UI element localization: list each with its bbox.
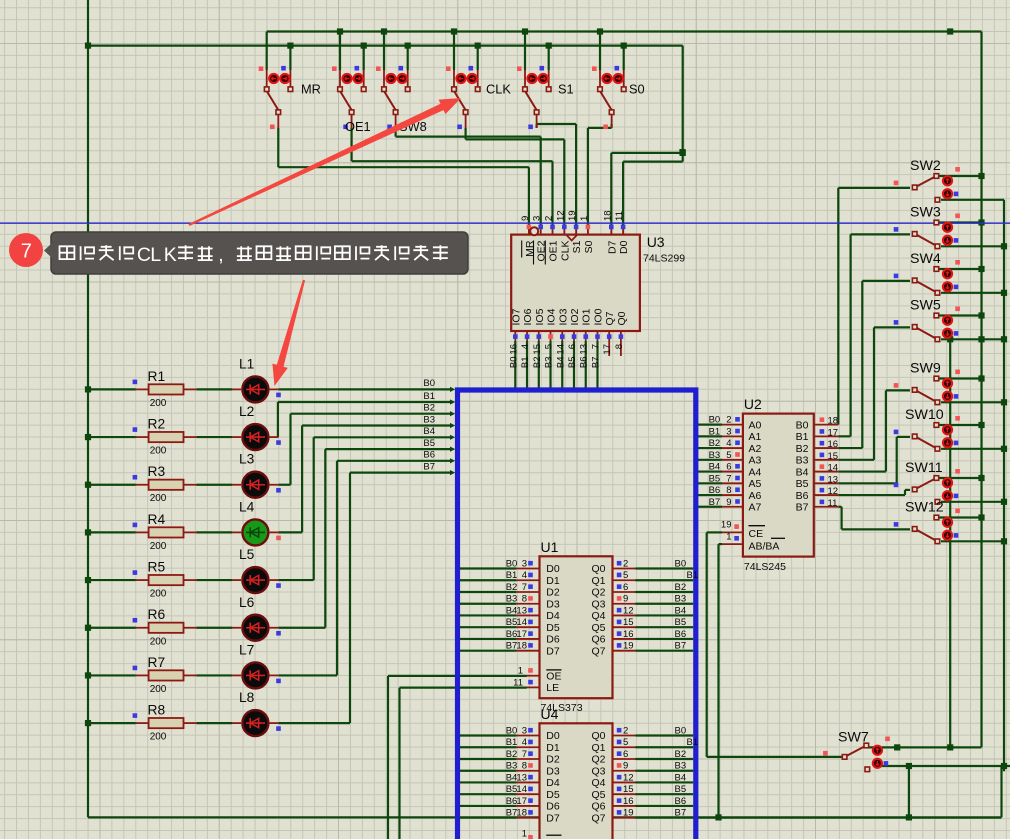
svg-text:D1: D1 <box>546 575 560 587</box>
svg-text:OE: OE <box>546 670 561 682</box>
svg-text:D6: D6 <box>546 634 560 646</box>
svg-text:7: 7 <box>590 344 601 349</box>
svg-text:B3: B3 <box>506 761 518 772</box>
svg-text:6: 6 <box>726 462 731 473</box>
svg-text:U3: U3 <box>647 234 665 250</box>
svg-text:8: 8 <box>726 485 731 496</box>
svg-text:D3: D3 <box>546 765 560 777</box>
svg-text:,: , <box>218 244 223 266</box>
svg-text:D7: D7 <box>546 645 560 657</box>
svg-text:B1: B1 <box>687 570 699 581</box>
svg-text:L8: L8 <box>239 690 255 705</box>
svg-text:B5: B5 <box>506 784 518 795</box>
svg-text:19: 19 <box>623 808 634 819</box>
svg-text:9: 9 <box>623 761 628 772</box>
svg-text:B6: B6 <box>506 629 518 640</box>
svg-text:B3: B3 <box>675 594 687 605</box>
svg-text:17: 17 <box>828 427 839 438</box>
svg-text:A1: A1 <box>749 431 762 443</box>
svg-text:B0: B0 <box>796 419 809 431</box>
svg-text:R1: R1 <box>148 369 166 384</box>
svg-text:D2: D2 <box>546 587 560 599</box>
svg-text:D4: D4 <box>546 610 560 622</box>
svg-text:B2: B2 <box>506 749 518 760</box>
svg-text:14: 14 <box>555 344 566 355</box>
svg-text:B5: B5 <box>506 617 518 628</box>
svg-text:7: 7 <box>21 241 32 263</box>
svg-text:IO7: IO7 <box>510 308 522 325</box>
svg-text:B7: B7 <box>675 808 687 819</box>
svg-text:SW10: SW10 <box>905 407 944 423</box>
svg-text:B2: B2 <box>423 403 435 414</box>
svg-text:11: 11 <box>513 677 523 688</box>
svg-text:1: 1 <box>518 666 523 677</box>
svg-text:B6: B6 <box>506 796 518 807</box>
svg-text:B1: B1 <box>709 426 721 437</box>
svg-text:SW9: SW9 <box>910 361 941 377</box>
svg-text:18: 18 <box>516 808 527 819</box>
svg-text:L3: L3 <box>239 452 255 467</box>
svg-text:L1: L1 <box>239 356 254 371</box>
svg-text:A2: A2 <box>749 443 762 455</box>
svg-text:L2: L2 <box>239 404 254 419</box>
svg-text:12: 12 <box>555 210 566 221</box>
svg-text:A3: A3 <box>749 455 762 467</box>
svg-text:IO3: IO3 <box>557 308 569 325</box>
svg-text:200: 200 <box>150 684 167 695</box>
svg-text:6: 6 <box>623 749 628 760</box>
svg-text:IO4: IO4 <box>546 308 558 325</box>
svg-text:B4: B4 <box>675 605 687 616</box>
svg-text:R7: R7 <box>148 655 166 670</box>
svg-text:B4: B4 <box>555 357 566 369</box>
svg-text:B3: B3 <box>675 761 687 772</box>
svg-text:Q2: Q2 <box>591 587 605 599</box>
svg-text:B6: B6 <box>709 485 721 496</box>
svg-text:14: 14 <box>828 463 839 474</box>
svg-text:Q7: Q7 <box>591 645 605 657</box>
svg-text:B3: B3 <box>796 455 809 467</box>
svg-text:12: 12 <box>623 772 634 783</box>
svg-text:14: 14 <box>516 784 527 795</box>
svg-text:B7: B7 <box>506 641 518 652</box>
svg-text:14: 14 <box>516 617 527 628</box>
svg-text:4: 4 <box>522 570 527 581</box>
svg-text:A4: A4 <box>749 466 762 478</box>
svg-text:B3: B3 <box>544 357 555 369</box>
svg-text:Q3: Q3 <box>591 765 605 777</box>
svg-text:B3: B3 <box>423 414 435 425</box>
svg-text:B0: B0 <box>506 726 518 737</box>
svg-text:16: 16 <box>508 344 519 355</box>
svg-text:B5: B5 <box>675 617 687 628</box>
svg-text:OE1: OE1 <box>548 240 560 261</box>
svg-text:5: 5 <box>623 570 628 581</box>
svg-text:IO6: IO6 <box>522 308 534 325</box>
svg-text:AB/BA: AB/BA <box>749 541 780 553</box>
svg-text:4: 4 <box>726 438 731 449</box>
svg-text:SW7: SW7 <box>838 730 869 746</box>
svg-text:Q4: Q4 <box>591 777 605 789</box>
svg-text:Q6: Q6 <box>591 801 605 813</box>
svg-text:3: 3 <box>532 216 543 221</box>
svg-text:U2: U2 <box>744 396 762 412</box>
svg-text:9: 9 <box>726 497 731 508</box>
svg-text:2: 2 <box>623 559 628 570</box>
svg-text:B0: B0 <box>506 559 518 570</box>
svg-text:13: 13 <box>516 772 527 783</box>
svg-text:B1: B1 <box>506 570 518 581</box>
svg-text:R6: R6 <box>148 607 166 622</box>
svg-text:74LS299: 74LS299 <box>643 253 685 265</box>
svg-text:A5: A5 <box>749 478 762 490</box>
svg-text:B5: B5 <box>567 357 578 369</box>
svg-text:C: C <box>137 244 151 266</box>
svg-text:B7: B7 <box>423 461 435 472</box>
svg-text:B1: B1 <box>423 391 435 402</box>
svg-text:Q5: Q5 <box>591 789 605 801</box>
svg-text:R8: R8 <box>148 702 166 717</box>
svg-text:B2: B2 <box>506 582 518 593</box>
svg-text:B4: B4 <box>675 772 687 783</box>
svg-text:B6: B6 <box>423 450 435 461</box>
svg-text:B6: B6 <box>579 357 590 369</box>
svg-text:A7: A7 <box>749 502 762 514</box>
svg-text:IO0: IO0 <box>592 308 604 325</box>
svg-text:CE: CE <box>749 528 764 540</box>
svg-text:IO2: IO2 <box>569 308 581 325</box>
svg-text:SW2: SW2 <box>910 158 941 174</box>
svg-text:11: 11 <box>614 211 625 221</box>
svg-text:16: 16 <box>828 439 839 450</box>
svg-text:B5: B5 <box>675 784 687 795</box>
svg-text:200: 200 <box>150 493 167 504</box>
svg-text:B1: B1 <box>520 357 531 369</box>
svg-text:B4: B4 <box>506 772 518 783</box>
svg-text:B7: B7 <box>590 357 601 369</box>
svg-text:B7: B7 <box>709 497 721 508</box>
svg-text:7: 7 <box>522 749 527 760</box>
svg-text:Q7: Q7 <box>591 812 605 824</box>
svg-text:A6: A6 <box>749 490 762 502</box>
svg-text:L6: L6 <box>239 595 255 610</box>
svg-text:R2: R2 <box>148 416 166 431</box>
svg-text:B5: B5 <box>796 478 809 490</box>
svg-text:U4: U4 <box>541 706 559 722</box>
svg-text:19: 19 <box>623 641 634 652</box>
svg-text:IO5: IO5 <box>534 308 546 325</box>
svg-text:D0: D0 <box>546 563 560 575</box>
svg-text:13: 13 <box>516 605 527 616</box>
svg-text:200: 200 <box>150 589 167 600</box>
svg-text:L7: L7 <box>239 642 254 657</box>
svg-text:Q3: Q3 <box>591 598 605 610</box>
svg-text:R5: R5 <box>148 559 166 574</box>
svg-text:Q0: Q0 <box>616 311 628 325</box>
svg-text:B5: B5 <box>423 438 435 449</box>
svg-text:B3: B3 <box>506 594 518 605</box>
svg-text:A0: A0 <box>749 419 762 431</box>
svg-text:17: 17 <box>602 344 613 355</box>
svg-text:D0: D0 <box>618 240 630 254</box>
svg-text:5: 5 <box>544 344 555 349</box>
svg-text:R4: R4 <box>148 512 166 527</box>
svg-text:Q6: Q6 <box>591 634 605 646</box>
svg-text:7: 7 <box>726 473 731 484</box>
svg-text:200: 200 <box>150 636 167 647</box>
svg-text:D5: D5 <box>546 622 560 634</box>
svg-text:L: L <box>150 244 161 266</box>
svg-text:9: 9 <box>520 216 531 221</box>
svg-text:19: 19 <box>567 210 578 221</box>
svg-text:OE2: OE2 <box>536 240 548 261</box>
svg-text:U1: U1 <box>541 539 559 555</box>
svg-text:19: 19 <box>721 520 732 531</box>
svg-text:MR: MR <box>524 240 536 257</box>
svg-text:B0: B0 <box>423 378 435 389</box>
svg-text:200: 200 <box>150 398 167 409</box>
svg-text:2: 2 <box>623 726 628 737</box>
svg-text:4: 4 <box>522 737 527 748</box>
svg-text:4: 4 <box>520 344 531 349</box>
svg-text:B2: B2 <box>709 438 721 449</box>
svg-text:B4: B4 <box>423 426 435 437</box>
svg-text:B2: B2 <box>675 582 687 593</box>
svg-text:D2: D2 <box>546 754 560 766</box>
svg-text:B1: B1 <box>506 737 518 748</box>
svg-text:1: 1 <box>579 216 590 221</box>
svg-text:S0: S0 <box>583 240 595 253</box>
svg-text:15: 15 <box>828 451 839 462</box>
svg-text:S0: S0 <box>629 82 645 97</box>
svg-text:B2: B2 <box>532 357 543 369</box>
svg-text:OE1: OE1 <box>345 119 371 134</box>
svg-text:B0: B0 <box>709 415 721 426</box>
svg-text:D6: D6 <box>546 801 560 813</box>
svg-text:S1: S1 <box>571 240 583 253</box>
svg-text:B1: B1 <box>796 431 809 443</box>
svg-text:B2: B2 <box>796 443 809 455</box>
svg-text:L5: L5 <box>239 547 255 562</box>
svg-text:12: 12 <box>828 486 839 497</box>
svg-text:D3: D3 <box>546 598 560 610</box>
svg-text:8: 8 <box>522 594 527 605</box>
svg-text:13: 13 <box>828 474 839 485</box>
svg-text:13: 13 <box>579 344 590 355</box>
svg-text:17: 17 <box>516 629 527 640</box>
svg-text:B4: B4 <box>506 605 518 616</box>
svg-text:15: 15 <box>623 784 634 795</box>
svg-text:D7: D7 <box>546 812 560 824</box>
svg-text:D0: D0 <box>546 730 560 742</box>
svg-text:B7: B7 <box>796 502 809 514</box>
svg-text:B6: B6 <box>675 629 687 640</box>
svg-text:IO1: IO1 <box>581 308 593 325</box>
svg-text:SW4: SW4 <box>910 251 941 267</box>
svg-text:18: 18 <box>602 210 613 221</box>
svg-text:15: 15 <box>623 617 634 628</box>
svg-text:6: 6 <box>623 582 628 593</box>
svg-text:7: 7 <box>522 582 527 593</box>
svg-text:B4: B4 <box>796 466 809 478</box>
svg-text:D5: D5 <box>546 789 560 801</box>
svg-text:15: 15 <box>532 344 543 355</box>
svg-text:B7: B7 <box>506 808 518 819</box>
svg-text:3: 3 <box>522 559 527 570</box>
svg-text:11: 11 <box>828 498 838 509</box>
svg-text:SW12: SW12 <box>905 500 944 516</box>
svg-text:B1: B1 <box>687 737 699 748</box>
svg-text:CLK: CLK <box>486 82 511 97</box>
svg-text:Q1: Q1 <box>591 742 605 754</box>
svg-text:2: 2 <box>726 415 731 426</box>
svg-text:SW11: SW11 <box>905 460 943 476</box>
svg-text:200: 200 <box>150 446 167 457</box>
svg-text:B4: B4 <box>709 462 721 473</box>
svg-text:16: 16 <box>623 629 634 640</box>
svg-text:B3: B3 <box>709 450 721 461</box>
svg-text:1: 1 <box>522 829 527 839</box>
svg-text:B2: B2 <box>675 749 687 760</box>
svg-text:D7: D7 <box>606 240 618 254</box>
svg-text:B0: B0 <box>675 559 687 570</box>
svg-text:17: 17 <box>516 796 527 807</box>
svg-text:2: 2 <box>544 216 555 221</box>
svg-text:3: 3 <box>522 726 527 737</box>
svg-text:B7: B7 <box>675 641 687 652</box>
svg-text:L4: L4 <box>239 499 255 514</box>
svg-text:74LS245: 74LS245 <box>744 561 786 573</box>
svg-text:B6: B6 <box>675 796 687 807</box>
svg-text:18: 18 <box>516 641 527 652</box>
svg-text:200: 200 <box>150 541 167 552</box>
svg-text:5: 5 <box>726 450 731 461</box>
svg-text:SW3: SW3 <box>910 205 941 221</box>
svg-text:B6: B6 <box>796 490 809 502</box>
svg-text:3: 3 <box>726 426 731 437</box>
svg-text:16: 16 <box>623 796 634 807</box>
svg-text:6: 6 <box>567 344 578 349</box>
svg-text:Q0: Q0 <box>591 730 605 742</box>
svg-text:SW5: SW5 <box>910 298 941 314</box>
svg-text:18: 18 <box>828 416 839 427</box>
svg-text:CLK: CLK <box>559 241 571 261</box>
svg-text:B0: B0 <box>508 357 519 369</box>
svg-text:D4: D4 <box>546 777 560 789</box>
svg-text:Q7: Q7 <box>604 311 616 325</box>
svg-text:Q1: Q1 <box>591 575 605 587</box>
svg-text:Q0: Q0 <box>591 563 605 575</box>
svg-text:1: 1 <box>726 532 731 543</box>
svg-text:Q2: Q2 <box>591 754 605 766</box>
svg-text:8: 8 <box>614 344 625 349</box>
svg-text:MR: MR <box>301 82 321 97</box>
svg-text:R3: R3 <box>148 464 166 479</box>
svg-text:B0: B0 <box>675 726 687 737</box>
svg-text:S1: S1 <box>558 82 574 97</box>
svg-text:8: 8 <box>522 761 527 772</box>
svg-text:200: 200 <box>150 732 167 743</box>
svg-text:LE: LE <box>546 682 559 694</box>
svg-text:Q5: Q5 <box>591 622 605 634</box>
svg-text:K: K <box>164 244 177 266</box>
svg-text:9: 9 <box>623 594 628 605</box>
svg-text:12: 12 <box>623 605 634 616</box>
svg-text:Q4: Q4 <box>591 610 605 622</box>
svg-text:D1: D1 <box>546 742 560 754</box>
svg-text:5: 5 <box>623 737 628 748</box>
svg-text:B5: B5 <box>709 473 721 484</box>
